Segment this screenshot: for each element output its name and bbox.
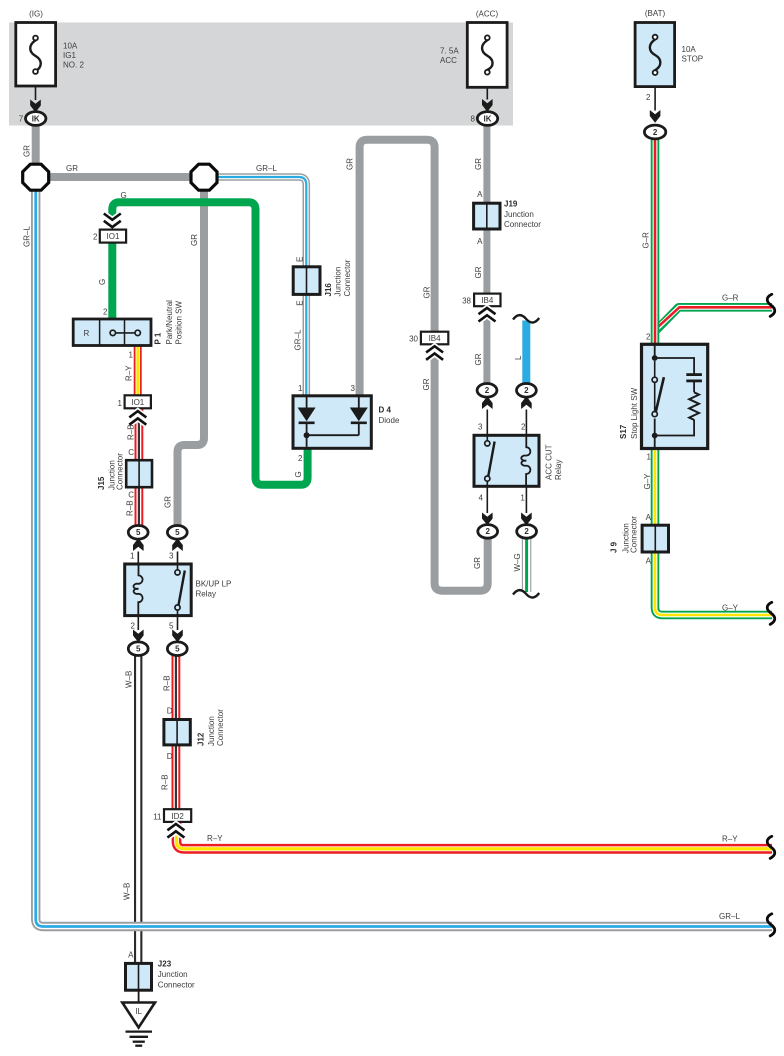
- wire L (blue) into ACC CUT relay pin2 oval: [522, 321, 530, 385]
- wire G-Y from S17 pin1 through J9 down right to edge: [655, 448, 772, 615]
- chevron pair below IB4-38 (pointing up): [479, 308, 496, 322]
- wire G-R from BAT oval 2 down into S17 pin2: [651, 139, 660, 346]
- svg-text:Junction: Junction: [504, 210, 534, 219]
- svg-text:10A: 10A: [63, 42, 78, 51]
- svg-text:A: A: [477, 237, 483, 246]
- svg-text:3: 3: [169, 552, 174, 561]
- wire GR from IK(7) to node A: [32, 122, 40, 177]
- continuation curl right edge G-Y: [767, 602, 775, 624]
- svg-text:R–B: R–B: [163, 675, 172, 691]
- junction connector J16: [293, 267, 320, 295]
- svg-text:STOP: STOP: [682, 55, 704, 64]
- svg-text:R–B: R–B: [161, 774, 170, 790]
- svg-text:Connector: Connector: [504, 220, 541, 229]
- svg-text:2: 2: [524, 527, 529, 536]
- svg-text:J15: J15: [97, 476, 106, 490]
- svg-text:J23: J23: [158, 960, 172, 969]
- svg-text:GR: GR: [66, 164, 78, 173]
- wire GR node A to node B: [36, 173, 204, 181]
- wire W-G from ACC CUT relay pin1 oval down: [513, 537, 539, 598]
- svg-text:S17: S17: [619, 424, 628, 439]
- continuation curl right edge GR-L: [767, 914, 775, 936]
- oval 5 below BK/UP relay pin5 with arrow: [167, 616, 187, 656]
- svg-text:GR: GR: [164, 496, 173, 508]
- wire W-B from BK/UP LP relay pin2 oval to J23: [134, 655, 142, 964]
- stop light switch S17: [642, 344, 708, 448]
- node A octagon: [23, 164, 49, 190]
- junction connector J19: [474, 203, 500, 229]
- connector box IO1 pin2: [100, 230, 126, 243]
- svg-text:GR: GR: [474, 158, 483, 170]
- junction connector J15: [126, 460, 152, 487]
- svg-text:G–R: G–R: [722, 294, 739, 303]
- svg-text:2: 2: [653, 128, 658, 137]
- svg-text:E: E: [296, 300, 305, 305]
- junction connector J9: [642, 525, 668, 552]
- svg-text:W–B: W–B: [125, 671, 134, 688]
- svg-text:C: C: [128, 448, 134, 457]
- svg-text:3: 3: [351, 384, 356, 393]
- svg-text:BK/UP LP: BK/UP LP: [196, 580, 232, 589]
- svg-text:Junction: Junction: [334, 267, 343, 297]
- svg-text:2: 2: [485, 527, 490, 536]
- wire GR node B down jog to BK/UP LP relay oval 5: [178, 183, 205, 526]
- svg-text:1: 1: [647, 453, 652, 462]
- svg-text:A: A: [128, 951, 134, 960]
- svg-text:1: 1: [118, 399, 123, 408]
- svg-text:3: 3: [478, 423, 483, 432]
- svg-text:5: 5: [169, 622, 174, 631]
- oval 2 below ACC CUT pin4 with arrow: [478, 486, 498, 538]
- svg-text:IK: IK: [484, 114, 492, 123]
- svg-text:10A: 10A: [682, 45, 697, 54]
- svg-text:NO. 2: NO. 2: [63, 61, 84, 70]
- svg-text:R: R: [84, 329, 90, 338]
- oval 5 below BK/UP relay pin2 with arrow: [128, 616, 148, 656]
- svg-text:2: 2: [298, 454, 303, 463]
- continuation curl right edge R-Y: [767, 836, 775, 858]
- svg-text:J12: J12: [197, 732, 206, 746]
- connector box ID2 pin11: [164, 809, 191, 822]
- svg-text:1: 1: [129, 351, 134, 360]
- wire G-R branch to right edge: [656, 307, 772, 330]
- oval 5 above BK/UP relay pin3: [167, 526, 187, 565]
- svg-text:IO1: IO1: [131, 398, 144, 407]
- svg-text:2: 2: [93, 233, 98, 242]
- svg-text:J 9: J 9: [610, 541, 619, 553]
- wire G (green) IO1 up across and down to D4 pin2: [112, 202, 307, 485]
- oval 5 above BK/UP relay pin1: [128, 526, 148, 565]
- svg-text:L: L: [514, 355, 523, 360]
- svg-text:Relay: Relay: [554, 460, 563, 480]
- svg-text:IK: IK: [32, 114, 40, 123]
- chevron pair below IB4-30 (pointing up): [426, 346, 443, 360]
- svg-text:IO1: IO1: [107, 232, 120, 241]
- chevron pair above IO1 upper (pointing down): [104, 214, 121, 228]
- svg-text:W–G: W–G: [513, 553, 522, 571]
- svg-text:GR: GR: [190, 234, 199, 246]
- svg-text:Stop Light SW: Stop Light SW: [630, 387, 639, 439]
- svg-text:Connector: Connector: [343, 259, 352, 296]
- connector box IO1 pin1: [125, 395, 151, 408]
- wire GR-L from node B to J16 and D4 pin1: [207, 177, 306, 397]
- svg-text:2: 2: [103, 308, 108, 317]
- svg-text:G–Y: G–Y: [722, 604, 739, 613]
- diode D4: [293, 396, 371, 449]
- fuse (IG) 10A IG1 NO.2: [16, 23, 56, 113]
- svg-text:G: G: [294, 471, 303, 477]
- svg-text:11: 11: [153, 813, 162, 822]
- svg-text:G: G: [121, 191, 127, 200]
- svg-text:GR–L: GR–L: [256, 164, 277, 173]
- svg-text:2: 2: [485, 386, 490, 395]
- chevron pair below ID2 (pointing up): [167, 824, 184, 838]
- svg-text:5: 5: [136, 645, 141, 654]
- svg-text:Connector: Connector: [116, 453, 125, 490]
- svg-text:5: 5: [175, 645, 180, 654]
- svg-text:2: 2: [524, 386, 529, 395]
- svg-text:2: 2: [646, 333, 651, 342]
- svg-text:R–B: R–B: [126, 500, 135, 516]
- svg-text:38: 38: [462, 296, 471, 305]
- wire R-B BK/UP LP relay pin5 oval through J12 to ID2: [171, 655, 180, 810]
- junction connector J12: [164, 720, 190, 745]
- svg-text:P 1: P 1: [154, 332, 163, 344]
- fuse (ACC) 7.5A: [467, 23, 507, 112]
- svg-text:IG1: IG1: [63, 51, 76, 60]
- relay P1 Park/Neutral Position SW: [73, 319, 151, 346]
- svg-text:J19: J19: [504, 200, 518, 209]
- svg-text:GR: GR: [474, 266, 483, 278]
- svg-text:1: 1: [520, 494, 525, 503]
- svg-text:Connector: Connector: [158, 981, 195, 990]
- background band: [9, 23, 513, 126]
- svg-text:5: 5: [136, 528, 141, 537]
- svg-text:IB4: IB4: [429, 334, 442, 343]
- wire GR from IK(8) through J19 and IB4(38) to oval 2: [483, 122, 490, 385]
- svg-text:D: D: [167, 752, 173, 761]
- svg-text:A: A: [477, 190, 483, 199]
- svg-text:(BAT): (BAT): [645, 9, 666, 18]
- oval 2 below ACC CUT pin1 with arrow: [517, 486, 537, 538]
- svg-text:7. 5A: 7. 5A: [440, 47, 459, 56]
- connector box IB4 pin38: [474, 294, 500, 307]
- svg-text:D 4: D 4: [379, 406, 392, 415]
- svg-text:Junction: Junction: [207, 716, 216, 746]
- svg-text:GR: GR: [423, 286, 432, 298]
- svg-text:Connector: Connector: [216, 709, 225, 746]
- fuse (BAT) 10A STOP: [635, 23, 675, 123]
- wire R-B IO1 through J15 to BK/UP LP relay oval 5: [134, 408, 143, 526]
- svg-text:GR–L: GR–L: [294, 329, 303, 350]
- svg-text:J16: J16: [324, 283, 333, 297]
- continuation curl right edge G-R: [767, 294, 775, 316]
- svg-text:Junction: Junction: [158, 970, 188, 979]
- svg-text:4: 4: [479, 494, 484, 503]
- svg-text:GR–L: GR–L: [23, 226, 32, 247]
- svg-text:30: 30: [409, 334, 418, 343]
- svg-text:R–Y: R–Y: [207, 834, 223, 843]
- svg-text:Diode: Diode: [379, 416, 400, 425]
- svg-text:G–Y: G–Y: [643, 473, 652, 490]
- svg-text:1: 1: [298, 384, 303, 393]
- svg-text:GR–L: GR–L: [719, 912, 740, 921]
- oval 2 below BAT fuse: [644, 125, 665, 139]
- svg-text:Connector: Connector: [630, 516, 639, 553]
- svg-text:R–B: R–B: [127, 424, 136, 440]
- chevron pair below IO1 lower (pointing up): [129, 411, 146, 425]
- svg-text:G: G: [98, 279, 107, 285]
- svg-text:8: 8: [471, 115, 476, 124]
- continuation tilde of wire L: [513, 315, 539, 322]
- oval 2 above ACC CUT pin2: [517, 384, 537, 436]
- svg-text:2: 2: [131, 622, 136, 631]
- svg-text:(IG): (IG): [29, 10, 43, 19]
- svg-text:A: A: [646, 557, 652, 566]
- svg-text:C: C: [128, 491, 134, 500]
- node B octagon: [191, 164, 217, 190]
- svg-text:IL: IL: [135, 1007, 142, 1016]
- svg-text:2: 2: [646, 93, 651, 102]
- svg-text:Position SW: Position SW: [175, 300, 184, 344]
- svg-text:(ACC): (ACC): [476, 10, 499, 19]
- svg-text:7: 7: [19, 115, 24, 124]
- ground IL triangle and symbol: [122, 990, 155, 1045]
- svg-text:ID2: ID2: [171, 812, 184, 821]
- svg-text:ACC CUT: ACC CUT: [545, 444, 554, 480]
- oval 2 above ACC CUT pin3: [477, 384, 497, 436]
- svg-text:Park/Neutral: Park/Neutral: [165, 300, 174, 345]
- svg-text:GR: GR: [473, 557, 482, 569]
- svg-text:W–B: W–B: [123, 883, 132, 900]
- svg-text:GR: GR: [422, 378, 431, 390]
- svg-text:Relay: Relay: [196, 590, 216, 599]
- oval IK pin7: [26, 112, 46, 126]
- svg-text:2: 2: [521, 423, 526, 432]
- svg-text:5: 5: [175, 528, 180, 537]
- wire R-Y P1 pin1 to IO1: [134, 344, 142, 396]
- svg-text:GR: GR: [474, 353, 483, 365]
- svg-text:1: 1: [130, 552, 135, 561]
- svg-text:E: E: [296, 257, 305, 262]
- ACC CUT relay: [474, 435, 539, 486]
- svg-text:ACC: ACC: [440, 56, 457, 65]
- svg-text:IB4: IB4: [481, 296, 494, 305]
- wire GR n-loop: D4 pin3 up over to ACC CUT relay pin4 oval: [360, 140, 488, 591]
- wire G (green) IO1 to P1 pin2: [108, 241, 116, 320]
- BK/UP LP relay: [125, 564, 192, 616]
- svg-text:GR: GR: [346, 158, 355, 170]
- svg-text:R–Y: R–Y: [722, 835, 738, 844]
- svg-text:R–Y: R–Y: [125, 365, 134, 381]
- svg-text:GR: GR: [23, 145, 32, 157]
- oval IK pin8: [477, 112, 497, 126]
- svg-text:G–R: G–R: [642, 232, 651, 249]
- svg-text:A: A: [646, 513, 652, 522]
- connector box IB4 pin30: [421, 332, 448, 345]
- junction connector J23: [126, 963, 152, 990]
- wire GR-L from node A down and across to right edge: [36, 180, 772, 927]
- wire R-Y from ID2 down and right to edge: [177, 823, 773, 849]
- svg-text:D: D: [167, 707, 173, 716]
